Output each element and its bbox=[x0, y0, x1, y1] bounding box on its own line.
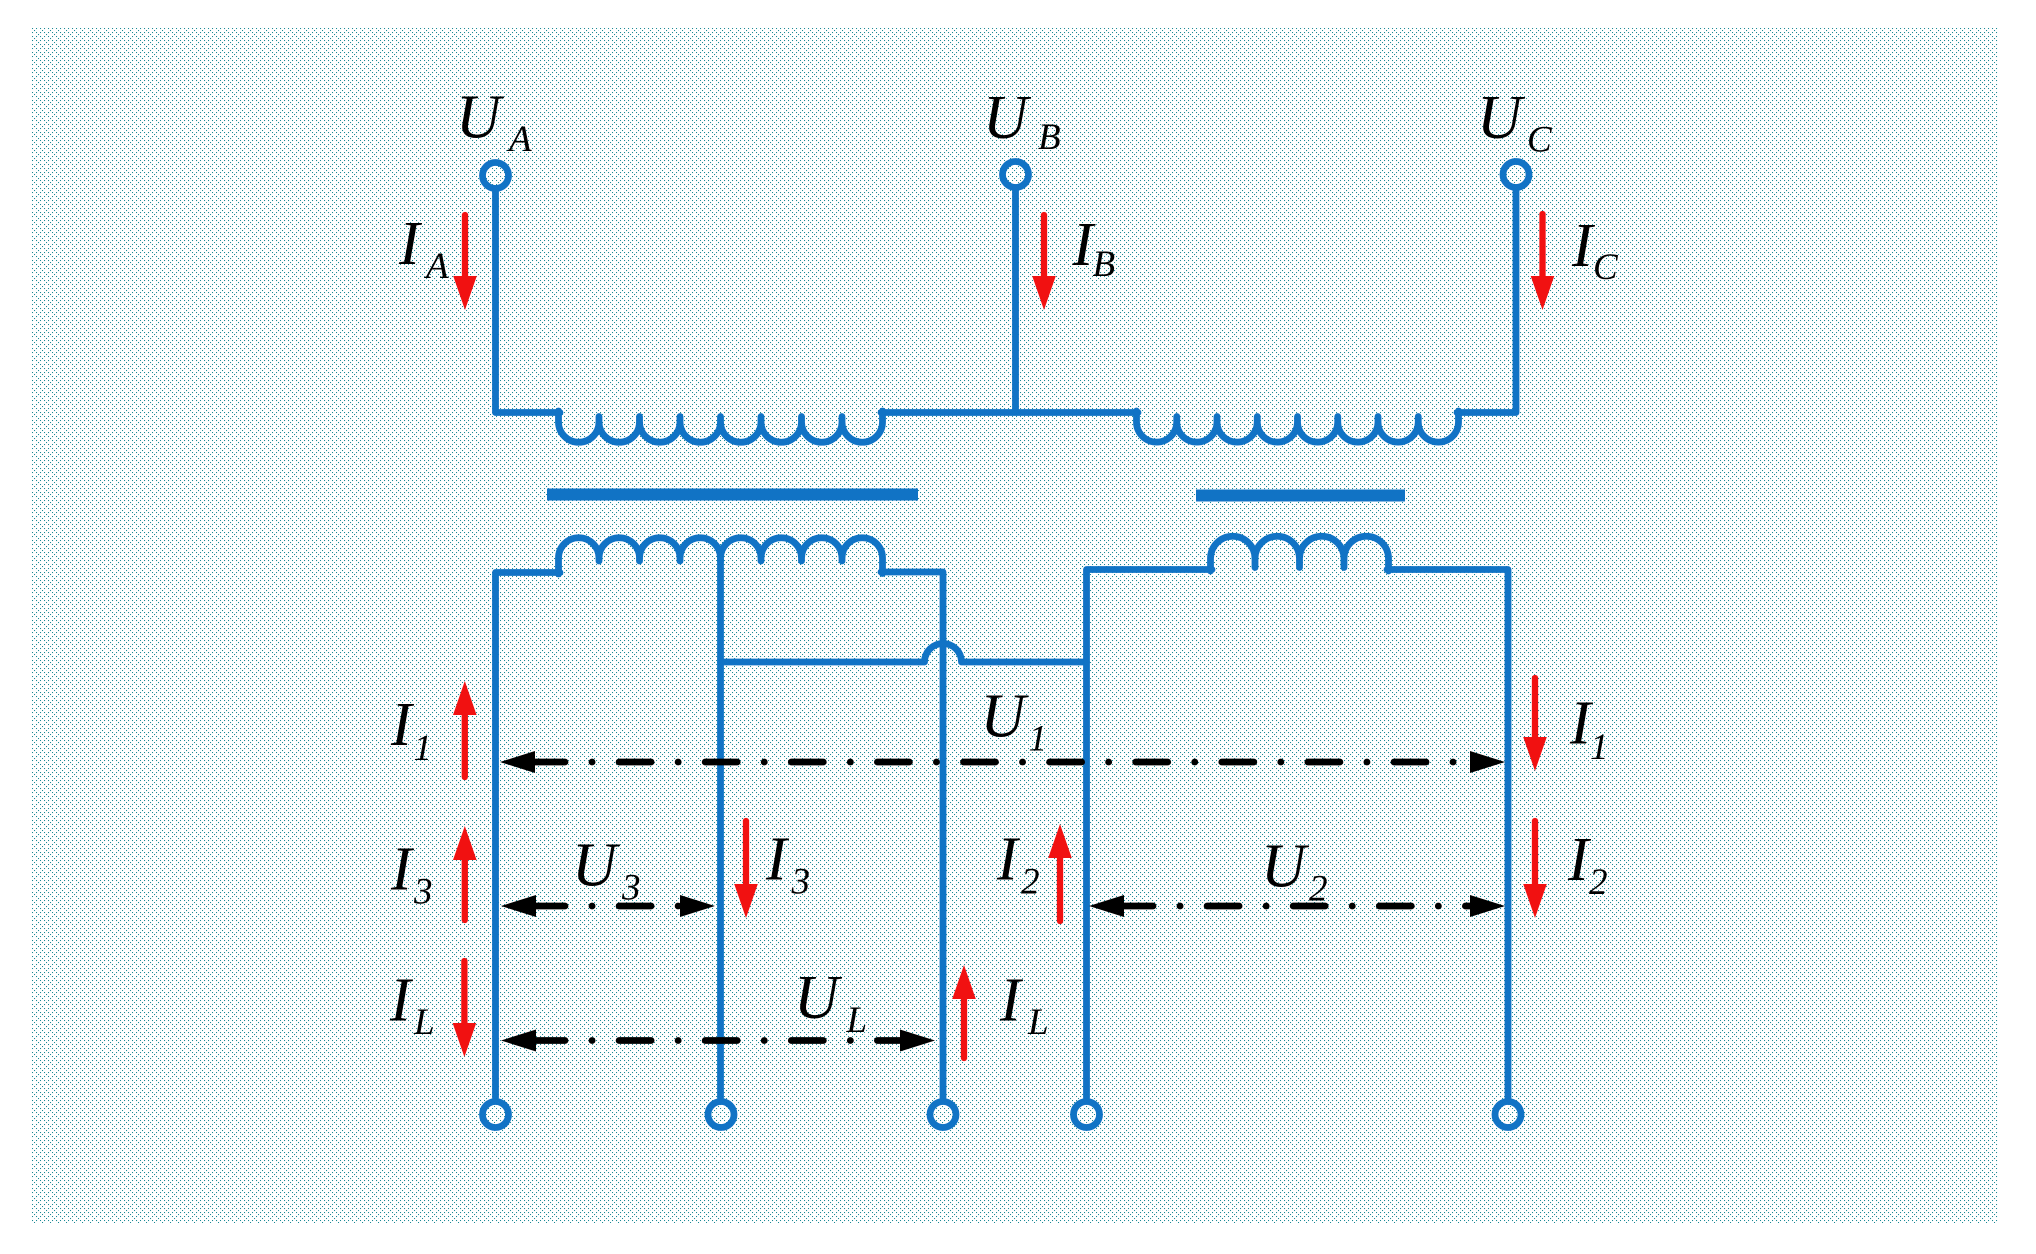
svg-text:1: 1 bbox=[414, 728, 433, 769]
svg-text:2: 2 bbox=[1021, 862, 1040, 903]
svg-text:B: B bbox=[1093, 244, 1116, 285]
svg-text:U: U bbox=[572, 832, 621, 900]
svg-text:C: C bbox=[1527, 120, 1553, 161]
svg-text:B: B bbox=[1038, 117, 1061, 158]
svg-text:L: L bbox=[1027, 1002, 1049, 1043]
svg-text:U: U bbox=[456, 84, 505, 152]
svg-text:I: I bbox=[390, 836, 415, 904]
svg-text:U: U bbox=[1477, 84, 1526, 152]
svg-text:1: 1 bbox=[1590, 727, 1609, 768]
svg-text:A: A bbox=[423, 246, 449, 287]
svg-text:I: I bbox=[390, 691, 415, 759]
svg-text:U: U bbox=[1261, 833, 1310, 901]
svg-text:I: I bbox=[999, 967, 1024, 1035]
svg-text:C: C bbox=[1593, 247, 1619, 288]
svg-text:U: U bbox=[981, 683, 1030, 751]
svg-text:L: L bbox=[413, 1002, 435, 1043]
svg-text:I: I bbox=[996, 826, 1021, 894]
svg-text:2: 2 bbox=[1589, 862, 1608, 903]
svg-text:3: 3 bbox=[413, 872, 433, 913]
svg-text:3: 3 bbox=[621, 868, 641, 909]
svg-text:3: 3 bbox=[791, 862, 811, 903]
svg-text:L: L bbox=[846, 1000, 868, 1041]
svg-text:I: I bbox=[398, 210, 423, 278]
svg-text:I: I bbox=[389, 967, 414, 1035]
svg-text:A: A bbox=[506, 119, 532, 160]
svg-text:1: 1 bbox=[1029, 719, 1048, 760]
svg-text:2: 2 bbox=[1309, 869, 1328, 910]
svg-text:U: U bbox=[983, 84, 1032, 152]
svg-text:U: U bbox=[794, 964, 843, 1032]
svg-text:I: I bbox=[765, 826, 790, 894]
